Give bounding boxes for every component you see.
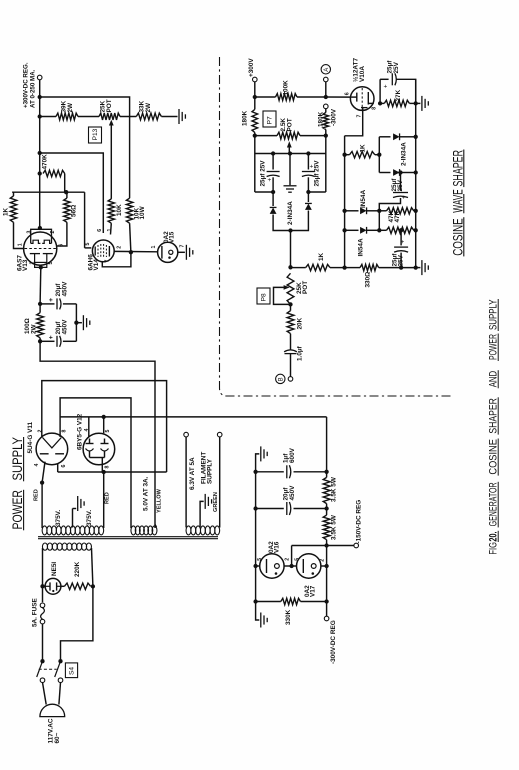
wire 10K10W down xyxy=(130,223,131,253)
resistor 20K xyxy=(287,311,294,334)
node 470K top xyxy=(38,171,42,175)
svg-text:+300V: +300V xyxy=(248,58,255,77)
wire V12 pin5 up xyxy=(103,417,105,433)
wire V15 to ground xyxy=(178,251,185,253)
svg-text:GREEN: GREEN xyxy=(213,492,219,512)
svg-text:6: 6 xyxy=(344,92,350,95)
svg-text:25V: 25V xyxy=(393,61,400,73)
wire HV right lead xyxy=(103,472,105,528)
wire pot row left xyxy=(255,135,277,137)
svg-text:330Ω: 330Ω xyxy=(364,272,371,288)
node cap4 top xyxy=(399,228,403,232)
node wiper rail xyxy=(288,151,292,155)
wire rail between xyxy=(326,504,328,515)
wire rail to 330K row xyxy=(326,566,328,602)
wire 6BY5 plate line xyxy=(60,416,327,418)
fuse 5A xyxy=(40,603,45,608)
node 220K right xyxy=(91,584,95,588)
wire corner down to 10K 10W xyxy=(129,117,131,199)
wire left box side xyxy=(254,136,256,192)
svg-text:SUPPLY: SUPPLY xyxy=(206,458,213,484)
svg-text:5A. FUSE: 5A. FUSE xyxy=(32,597,39,627)
svg-text:POT: POT xyxy=(287,118,294,131)
svg-text:5: 5 xyxy=(105,430,111,433)
wire screen rail y=192 xyxy=(12,191,85,193)
svg-text:NE5I: NE5I xyxy=(51,562,58,576)
capacitor 20uf 450V upper xyxy=(56,298,58,309)
svg-text:V13: V13 xyxy=(22,259,29,271)
svg-text:25V: 25V xyxy=(398,254,405,266)
ground shaper mid xyxy=(284,185,297,187)
node V14 plate to 10K10W xyxy=(129,250,133,254)
wire V14 plate out xyxy=(114,250,158,252)
wire V12 pin8 drop xyxy=(101,465,103,472)
node cap4 bottom xyxy=(399,265,403,269)
node caps ground xyxy=(74,321,78,325)
node cap 20uf left xyxy=(253,506,257,510)
tube V14 plate xyxy=(108,246,110,257)
wire -150 line xyxy=(292,545,354,547)
capacitor 25uf 25V bottom xyxy=(400,230,402,245)
svg-text:375V.: 375V. xyxy=(86,510,93,526)
wire 56ohm to V13 grid xyxy=(66,192,68,198)
node ladder 1K xyxy=(342,153,346,157)
ground neg section bottom xyxy=(260,613,262,628)
tube V13 cathode box xyxy=(35,254,47,268)
node rail bottom corner xyxy=(414,265,418,269)
node rail 27K xyxy=(414,101,418,105)
wire V14 cathode loop xyxy=(102,252,131,267)
svg-text:COSINE: COSINE xyxy=(450,218,465,256)
svg-text:450V: 450V xyxy=(61,281,68,297)
node +300V rail left xyxy=(253,95,257,99)
pot P8 wiper xyxy=(284,285,290,290)
transformer core xyxy=(38,536,218,538)
svg-text:5: 5 xyxy=(257,558,263,561)
wire 180K left stubs xyxy=(254,97,256,109)
pot P7 wiper arrow xyxy=(287,141,292,147)
svg-text:25µf 25V: 25µf 25V xyxy=(259,160,266,187)
node rail d-lower xyxy=(414,170,418,174)
svg-text:2W: 2W xyxy=(31,323,38,334)
capacitor 1.0uf xyxy=(290,334,292,350)
terminal -300V-DC REG xyxy=(324,616,329,621)
svg-text:2: 2 xyxy=(30,262,36,265)
svg-text:P7: P7 xyxy=(267,116,274,124)
wire V12 pin4 up xyxy=(88,417,90,437)
svg-text:+300V-DC REG.: +300V-DC REG. xyxy=(22,62,29,108)
node 470K tap xyxy=(38,151,42,155)
wire bleeder row xyxy=(40,116,56,118)
wire bottom gnd stem xyxy=(416,267,421,269)
wire screen rail down to pin5 xyxy=(84,192,86,248)
wire pot row right xyxy=(300,135,326,137)
wire 470K down to screen rail xyxy=(64,174,66,193)
svg-text:A: A xyxy=(324,68,330,72)
svg-text:27K: 27K xyxy=(395,89,402,101)
resistor 47K upper xyxy=(387,208,414,214)
svg-text:5U4-G V11: 5U4-G V11 xyxy=(27,421,34,453)
wire cathode down xyxy=(39,267,42,304)
node lamp left xyxy=(40,584,44,588)
svg-text:375V.: 375V. xyxy=(55,510,62,526)
wire plug prongs xyxy=(43,683,47,705)
svg-text:20.: 20. xyxy=(487,532,499,542)
tube V10A divider dashed xyxy=(361,88,363,110)
wire 6.3V center tap xyxy=(200,501,204,527)
node cap3 top xyxy=(398,170,402,174)
node cap 1uf left xyxy=(253,470,257,474)
wire V16-V17 mid up xyxy=(291,546,293,567)
tube V17 cathode bar xyxy=(302,559,304,573)
tube V10A envelope xyxy=(350,87,374,111)
svg-text:+: + xyxy=(48,298,55,302)
node V16-V17 mid xyxy=(289,564,293,568)
wire 33K to ground xyxy=(161,116,177,118)
resistor 10K 10W xyxy=(126,198,132,223)
svg-text:100K: 100K xyxy=(283,80,290,96)
svg-text:6BY5-G V12: 6BY5-G V12 xyxy=(77,413,84,450)
node pot row left xyxy=(253,133,257,137)
transformer primary xyxy=(42,543,47,550)
svg-text:10K: 10K xyxy=(116,204,123,216)
node diode B top xyxy=(306,190,310,194)
svg-text:COSINE: COSINE xyxy=(487,439,499,475)
terminal 6.3V left xyxy=(184,432,189,437)
wire L2 V11 pin2 loop xyxy=(42,381,167,472)
ground neg section top xyxy=(260,446,262,461)
svg-text:WAVE: WAVE xyxy=(450,189,465,213)
wire 10K to V14 pin1 xyxy=(110,223,113,234)
diode 2-IN34A upper xyxy=(379,136,390,138)
svg-text:YELLOW: YELLOW xyxy=(156,488,162,513)
node V17 right rail xyxy=(324,564,328,568)
wire V16-V17 link xyxy=(284,565,297,567)
capacitor 25uf 25V mid xyxy=(400,173,402,191)
wire left rail gnd bottom xyxy=(256,602,260,621)
wire to cap 2 xyxy=(40,340,54,342)
svg-text:S4: S4 xyxy=(69,667,76,675)
tube V10A cathode xyxy=(361,107,368,109)
svg-text:RED: RED xyxy=(105,492,111,504)
diode 2-IN34A left A xyxy=(272,192,274,206)
wire L3 V11 pin8 to 5V winding xyxy=(60,398,131,528)
svg-text:2: 2 xyxy=(319,559,325,562)
svg-text:180K: 180K xyxy=(242,110,249,126)
terminal 6.3V right xyxy=(217,432,222,437)
terminal +300V shaper xyxy=(253,77,258,82)
svg-text:+: + xyxy=(401,240,407,244)
svg-text:V15: V15 xyxy=(169,231,176,243)
transformer 6.3V secondary xyxy=(186,526,191,535)
tube V12 cathode join xyxy=(89,452,91,458)
svg-text:V16: V16 xyxy=(274,541,281,553)
svg-text:8: 8 xyxy=(104,466,110,469)
svg-text:470K: 470K xyxy=(42,154,49,170)
resistor 10K xyxy=(108,199,114,223)
svg-text:IN54A: IN54A xyxy=(360,190,367,208)
tube V17 anode xyxy=(311,564,316,569)
svg-text:B: B xyxy=(278,377,284,381)
resistor 33K 2W xyxy=(136,113,161,120)
resistor 470K xyxy=(43,170,65,176)
svg-text:330K: 330K xyxy=(285,609,292,625)
svg-text:4: 4 xyxy=(34,464,40,467)
wire 6.3V right up xyxy=(219,437,221,528)
wire 330K row right xyxy=(301,601,327,603)
tube V10A grid xyxy=(351,96,357,98)
tube V13 cathodes xyxy=(30,253,40,255)
svg-text:POT: POT xyxy=(302,281,309,294)
tube V12 diode A xyxy=(86,443,94,445)
diode 2-IN34A lower xyxy=(379,172,390,174)
node terminal A tap xyxy=(324,95,328,99)
wire join down to divider xyxy=(290,231,292,268)
wire 100K to A xyxy=(297,96,326,98)
wire +300V terminal down to rail xyxy=(39,80,41,174)
wire left gnd rail xyxy=(255,472,257,602)
svg-text:GENERATOR: GENERATOR xyxy=(487,482,499,526)
tube V11 plates xyxy=(40,453,49,455)
node switch right xyxy=(58,659,62,663)
tube V12 6BY5-G envelope xyxy=(83,433,115,465)
terminal -300V shaper xyxy=(324,104,329,109)
plug 117V AC xyxy=(40,704,65,716)
terminal B xyxy=(288,377,293,382)
svg-text:450V: 450V xyxy=(61,319,68,335)
pot P13 wiper arrow xyxy=(110,122,112,129)
svg-text:7: 7 xyxy=(105,260,111,263)
svg-text:AT 0-250 MA.: AT 0-250 MA. xyxy=(29,69,36,108)
wire 220K right down xyxy=(61,586,93,661)
node rail 47K lower xyxy=(414,228,418,232)
svg-text:1K: 1K xyxy=(2,207,9,216)
label P8 xyxy=(257,288,270,304)
capacitor 25uf 25V right xyxy=(307,154,309,170)
switch S4 blades xyxy=(37,661,43,677)
svg-text:+: + xyxy=(402,195,408,199)
tube V16 cathode bar xyxy=(266,559,268,573)
wire L1 raw B+ to 5V winding xyxy=(40,341,155,528)
wire cap to rail top xyxy=(396,79,415,103)
wire 330 to rail corner xyxy=(379,267,416,269)
node ladder IN54A upper xyxy=(342,209,346,213)
wire right stub y192 xyxy=(308,191,325,193)
tube V13 plate box xyxy=(31,229,52,243)
svg-text:1: 1 xyxy=(151,246,157,249)
ground 6.3V xyxy=(204,494,206,509)
ground HV center tap xyxy=(77,496,79,511)
svg-text:2W: 2W xyxy=(145,102,152,113)
ground shaper bottom right xyxy=(421,260,423,275)
wire V10A cathode down xyxy=(345,112,363,136)
wire HV center tap xyxy=(72,509,74,528)
svg-text:600V: 600V xyxy=(289,447,296,463)
wire B+ down to V13 plate xyxy=(39,174,41,229)
svg-text:3: 3 xyxy=(27,231,33,234)
ground V15 xyxy=(185,245,187,260)
tube V14 cathode xyxy=(94,247,96,256)
wire primary left down xyxy=(42,548,44,602)
transformer HV secondary xyxy=(42,526,47,535)
svg-text:P8: P8 xyxy=(261,293,268,301)
wire 180K right stubs xyxy=(325,109,327,113)
wire 27K to rail xyxy=(380,102,384,104)
node rail 47K upper xyxy=(414,209,418,213)
svg-text:20K: 20K xyxy=(296,317,303,329)
svg-text:8: 8 xyxy=(61,430,67,433)
svg-text:SUPPLY: SUPPLY xyxy=(10,437,25,481)
wire plate to cap xyxy=(380,78,389,80)
resistor 39K 2W xyxy=(56,113,78,120)
svg-text:3.5K 5W: 3.5K 5W xyxy=(331,476,338,502)
wire 39K to pot xyxy=(78,116,99,118)
wire cap 20uf row xyxy=(256,508,284,510)
node -150 tee xyxy=(324,543,328,547)
svg-text:SUPPLY: SUPPLY xyxy=(487,299,499,330)
wire left rail gnd stem xyxy=(256,454,260,472)
wire grid resistor to V13 grid xyxy=(13,192,15,196)
svg-text:2W: 2W xyxy=(67,102,74,113)
wire lamp to 220K xyxy=(61,585,65,587)
svg-text:5: 5 xyxy=(294,558,300,561)
svg-text:2: 2 xyxy=(37,430,43,433)
wire rail gnd stem xyxy=(416,102,421,104)
wire V14 grid stub xyxy=(85,247,92,249)
svg-text:-300V-DC REG: -300V-DC REG xyxy=(330,620,337,664)
wire left stub y192 xyxy=(255,191,273,193)
node 330K right xyxy=(324,599,328,603)
wire 1K to ladder xyxy=(330,267,345,269)
svg-text:2: 2 xyxy=(50,231,56,234)
diode IN54A upper xyxy=(345,210,359,212)
node ladder IN54A lower xyxy=(342,228,346,232)
label P13 xyxy=(89,127,102,143)
svg-text:V17: V17 xyxy=(310,585,317,597)
wire cap top rail xyxy=(255,153,326,155)
tube V12 diode B xyxy=(101,443,109,445)
wire stub A vertical xyxy=(378,137,380,173)
capacitor 20uf 450V lower xyxy=(56,336,58,347)
node pot row right xyxy=(324,133,328,137)
wire right box side xyxy=(325,136,327,192)
capacitor 25uf 25V left xyxy=(272,154,274,170)
wire top rail y=97 xyxy=(40,97,130,117)
tube V16 anode xyxy=(275,564,280,569)
tube V15 0A2 envelope xyxy=(158,242,178,262)
svg-text:SHAPER: SHAPER xyxy=(450,150,465,187)
svg-text:60~: 60~ xyxy=(54,732,61,743)
tube V13 plate hats xyxy=(31,240,41,243)
svg-text:10W: 10W xyxy=(139,205,146,219)
wire stub B vertical xyxy=(378,211,380,231)
potentiometer 25K POT xyxy=(99,113,120,120)
resistor 3.5K 5W upper xyxy=(323,477,330,503)
node V12 pin5 junction xyxy=(102,415,106,419)
wire rail to -150 tee xyxy=(326,540,328,566)
svg-text:2-IN34A: 2-IN34A xyxy=(401,142,408,166)
svg-text:56Ω: 56Ω xyxy=(71,205,78,217)
wire shaper top rail xyxy=(255,96,276,98)
svg-text:1.0µf: 1.0µf xyxy=(296,345,303,361)
node V13 cathode xyxy=(39,265,43,269)
resistor 180K left xyxy=(252,109,258,132)
wire 330K row left xyxy=(256,601,281,603)
node V11 pin4 node xyxy=(40,480,44,484)
node stub B top xyxy=(377,209,381,213)
wire 1K stubs xyxy=(345,154,350,156)
svg-text:7: 7 xyxy=(179,245,185,248)
svg-text:1: 1 xyxy=(17,243,23,246)
node raw B+ top corner xyxy=(38,95,42,99)
svg-text:V14: V14 xyxy=(93,259,100,271)
wire V11 pin6 drop xyxy=(57,464,59,472)
wire caps ground rail xyxy=(75,304,77,341)
lamp NE51 xyxy=(45,578,61,594)
resistor 330 ohm xyxy=(360,264,379,270)
svg-text:IN54A: IN54A xyxy=(358,238,365,256)
wire pot to 20K xyxy=(290,304,292,310)
svg-text:47K: 47K xyxy=(394,210,401,222)
node stub B bottom xyxy=(377,228,381,232)
node V10A plate xyxy=(378,101,382,105)
node cap 1uf right xyxy=(324,470,328,474)
node bleeder row xyxy=(38,114,42,118)
svg-text:P13: P13 xyxy=(92,128,99,140)
terminal -150V-DC REG xyxy=(354,543,359,548)
wire diode join xyxy=(273,229,308,231)
potentiometer 25K POT P8 xyxy=(287,273,294,304)
tube V10A plate xyxy=(367,92,369,105)
svg-text:25µf 25V: 25µf 25V xyxy=(314,160,321,187)
tube V14 grid dashes xyxy=(97,245,99,257)
svg-text:180K: 180K xyxy=(317,111,324,127)
wire plate node up xyxy=(379,79,381,103)
diode 2-IN34A left B xyxy=(307,192,309,202)
svg-text:POT: POT xyxy=(106,99,113,112)
svg-text:+: + xyxy=(268,178,274,182)
node divider top xyxy=(288,265,292,269)
svg-text:AND: AND xyxy=(487,371,499,388)
svg-text:8: 8 xyxy=(372,107,378,110)
wire cap1 to gnd rail xyxy=(63,303,77,305)
wire V11 pin4 drop xyxy=(42,462,45,483)
wire ladder left rail xyxy=(344,136,346,268)
svg-text:+: + xyxy=(48,335,55,339)
wire V16 left xyxy=(256,565,260,567)
tube V11 5U4-G envelope xyxy=(36,433,68,465)
node switch left xyxy=(40,659,44,663)
wire to cap 1 xyxy=(40,303,54,305)
svg-text:6.3V AT 5A: 6.3V AT 5A xyxy=(189,457,196,490)
resistor grid 1K (edge) xyxy=(10,196,16,222)
node rail d-upper xyxy=(414,135,418,139)
resistor 180K right xyxy=(323,113,329,130)
node cap A top xyxy=(271,151,275,155)
svg-text:2-IN34A: 2-IN34A xyxy=(287,201,294,225)
svg-text:POWER: POWER xyxy=(487,334,499,360)
svg-text:+: + xyxy=(384,84,390,88)
svg-text:5: 5 xyxy=(85,243,91,246)
resistor 220K xyxy=(64,583,90,589)
tube V17 0A2 envelope xyxy=(297,554,321,578)
wire shaper bottom rail xyxy=(291,267,306,269)
tube V11 filament xyxy=(43,438,62,448)
svg-text:220K: 220K xyxy=(74,561,81,577)
svg-text:RED: RED xyxy=(33,489,39,501)
resistor 3.5K 5W lower xyxy=(323,515,330,540)
resistor 1K bottom xyxy=(306,264,330,270)
